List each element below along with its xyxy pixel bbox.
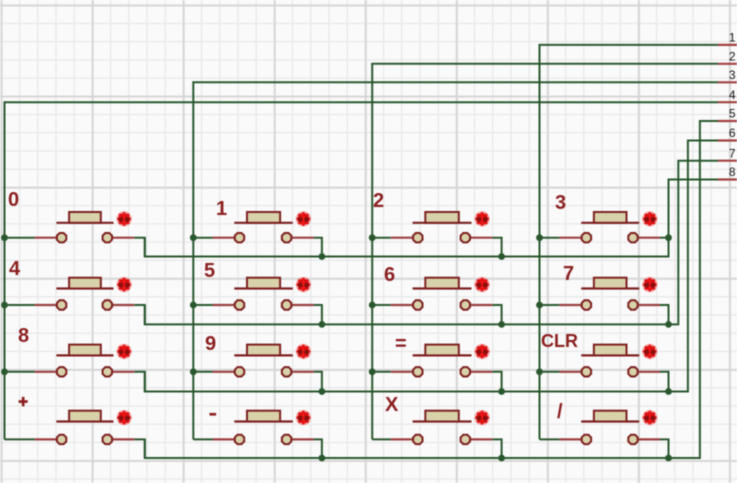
junction: row 2 bus at column 4 drop bbox=[665, 321, 672, 328]
value label "-" bbox=[210, 413, 217, 416]
wire: column 2 feed vertical and top run to terminal 3 bbox=[193, 82, 718, 439]
junction: column 2 vertical at row 2 left pin bbox=[190, 302, 197, 309]
push button SW "-" (row 4, col 2) bbox=[193, 410, 322, 458]
junction: row 2 bus at column 3 drop bbox=[498, 321, 505, 328]
svg-text:9: 9 bbox=[205, 333, 216, 355]
wire: column 3 feed vertical and top run to terminal 2 bbox=[372, 64, 718, 440]
junction: row 4 bus at column 4 drop bbox=[665, 455, 672, 462]
svg-text:0: 0 bbox=[8, 189, 19, 211]
svg-text:8: 8 bbox=[729, 165, 736, 179]
wire: row 3 bus and riser to terminal 6 bbox=[145, 141, 718, 392]
junction: row 4 bus at column 2 drop bbox=[319, 455, 326, 462]
wire: red tip of terminal 1 bbox=[718, 44, 737, 46]
wire: row 4 bus and riser to terminal 5 bbox=[145, 121, 718, 458]
junction: column 1 vertical at row 2 left pin bbox=[1, 302, 8, 309]
push button SW "=" (row 3, col 3) bbox=[372, 344, 501, 392]
wire: red tip of terminal 5 bbox=[718, 120, 737, 122]
push button SW "/" (row 4, col 4) bbox=[540, 410, 669, 458]
wire: red tip of terminal 4 bbox=[718, 101, 737, 103]
wire: red tip of terminal 3 bbox=[718, 81, 737, 83]
wire: red tip of terminal 6 bbox=[718, 139, 737, 141]
push button SW "5" (row 2, col 2) bbox=[193, 277, 322, 324]
value label "+" bbox=[19, 397, 28, 406]
svg-text:X: X bbox=[385, 394, 399, 416]
svg-text:6: 6 bbox=[729, 126, 736, 140]
wire: row 2 bus and riser to terminal 7 bbox=[145, 161, 718, 325]
junction: column 3 vertical at row 2 left pin bbox=[369, 302, 376, 309]
svg-text:/: / bbox=[557, 401, 563, 423]
svg-text:7: 7 bbox=[563, 263, 574, 285]
push button SW "1" (row 1, col 2) bbox=[193, 211, 322, 256]
junction: column 2 vertical at row 1 left pin bbox=[190, 234, 197, 241]
junction: column 1 vertical at row 3 left pin bbox=[1, 368, 8, 375]
svg-text:1: 1 bbox=[216, 198, 227, 220]
junction: column 3 vertical at row 1 left pin bbox=[369, 234, 376, 241]
push button SW "0" (row 1, col 1) bbox=[5, 211, 145, 256]
wire: red tip of terminal 8 bbox=[718, 178, 737, 180]
svg-text:2: 2 bbox=[373, 190, 384, 212]
wire: red tip of terminal 2 bbox=[718, 63, 737, 65]
push button SW "+" (row 4, col 1) bbox=[5, 410, 145, 458]
svg-text:6: 6 bbox=[384, 264, 395, 286]
junction: row 4 bus at column 3 drop bbox=[498, 455, 505, 462]
svg-text:3: 3 bbox=[555, 192, 566, 214]
svg-text:8: 8 bbox=[18, 325, 29, 347]
push button SW "X" (row 4, col 3) bbox=[372, 410, 501, 458]
svg-text:CLR: CLR bbox=[541, 331, 578, 351]
wire: column 1 feed vertical and top run to terminal 4 bbox=[5, 102, 719, 439]
junction: row 3 bus at column 3 drop bbox=[498, 388, 505, 395]
junction: column 1 vertical at row 1 left pin bbox=[1, 234, 8, 241]
push button SW "CLR" (row 3, col 4) bbox=[540, 344, 669, 392]
push button SW "9" (row 3, col 2) bbox=[193, 344, 322, 392]
junction: row 1 bus at column 3 drop bbox=[498, 253, 505, 260]
junction: terminal-8 riser at row 1 col 4 right pin bbox=[665, 234, 672, 241]
junction: column 4 vertical at row 2 left pin bbox=[536, 302, 543, 309]
push button SW "4" (row 2, col 1) bbox=[5, 277, 145, 324]
svg-text:5: 5 bbox=[729, 107, 736, 121]
junction: row 2 bus at column 2 drop bbox=[319, 321, 326, 328]
junction: column 4 vertical at row 1 left pin bbox=[536, 234, 543, 241]
svg-text:4: 4 bbox=[9, 258, 21, 280]
wire: red tip of terminal 7 bbox=[718, 160, 737, 162]
svg-text:2: 2 bbox=[729, 50, 736, 64]
svg-text:4: 4 bbox=[729, 88, 736, 102]
svg-text:1: 1 bbox=[729, 31, 736, 45]
push button SW "3" (row 1, col 4) bbox=[540, 211, 669, 242]
junction: column 4 vertical at row 3 left pin bbox=[536, 368, 543, 375]
svg-text:=: = bbox=[395, 333, 407, 355]
wire: column 4 feed vertical and top run to terminal 1 bbox=[540, 45, 719, 440]
junction: column 3 vertical at row 3 left pin bbox=[369, 368, 376, 375]
push button SW "8" (row 3, col 1) bbox=[5, 344, 145, 392]
svg-text:3: 3 bbox=[729, 68, 736, 82]
junction: row 3 bus at column 4 drop bbox=[665, 388, 672, 395]
push button SW "6" (row 2, col 3) bbox=[372, 277, 501, 324]
junction: column 2 vertical at row 3 left pin bbox=[190, 368, 197, 375]
svg-text:7: 7 bbox=[729, 146, 736, 160]
junction: row 1 bus at column 2 drop bbox=[319, 253, 326, 260]
junction: row 3 bus at column 2 drop bbox=[319, 388, 326, 395]
svg-text:5: 5 bbox=[204, 260, 215, 282]
push button SW "2" (row 1, col 3) bbox=[372, 211, 501, 256]
push button SW "7" (row 2, col 4) bbox=[540, 277, 669, 324]
wire: row 1 bus and riser to terminal 8 bbox=[145, 180, 718, 257]
